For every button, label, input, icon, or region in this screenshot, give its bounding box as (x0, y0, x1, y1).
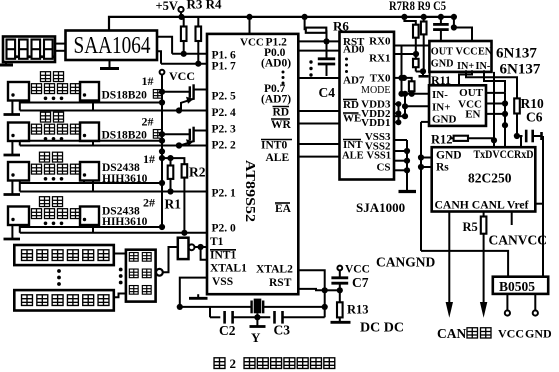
svg-text:P2. 5: P2. 5 (212, 91, 237, 103)
capacitor C7 (331, 270, 348, 290)
wire IN+ chain to R10 (466, 70, 517, 98)
svg-text:XTAL2: XTAL2 (256, 264, 293, 276)
wire detector1 to gate (114, 253, 126, 255)
svg-text:WR: WR (271, 119, 292, 131)
label 2# b (143, 196, 155, 210)
IC SAA1064 display driver (66, 31, 158, 61)
wire RX0 drop (398, 46, 404, 97)
label wen-du 1 (40, 72, 63, 82)
wire VDD net (394, 101, 401, 125)
resistor R12 (450, 136, 495, 141)
label C2 (219, 323, 236, 338)
svg-text:CANVCC: CANVCC (489, 233, 548, 248)
wire IN- lower opto (402, 91, 430, 97)
label R10 (521, 96, 544, 111)
svg-text:2#: 2# (143, 196, 155, 210)
wire XTAL2 net (298, 270, 324, 290)
wire AD7 net (298, 77, 339, 79)
ground (crystal) (250, 317, 266, 326)
svg-text:C7: C7 (352, 275, 369, 290)
svg-text:GND: GND (525, 327, 552, 341)
capacitor C6 (514, 130, 542, 143)
svg-text:P1. 7: P1. 7 (212, 61, 237, 73)
wire sensor3 w1 (20, 182, 162, 184)
resistor R9 (413, 54, 419, 72)
svg-text:EN: EN (465, 109, 480, 121)
crystal line right (263, 304, 328, 310)
label shi-du 2 (39, 197, 62, 207)
resistor R1 (162, 155, 174, 195)
label chuanganqizu 4 (31, 209, 80, 219)
svg-text:INT0: INT0 (261, 140, 287, 152)
wire VCC lower net (486, 100, 508, 106)
wire sensor4 w2 P2.0 (20, 230, 207, 236)
transistor Q1 (162, 84, 207, 113)
wire P1.6 net (172, 51, 207, 57)
svg-text:WE: WE (343, 113, 361, 125)
wire CANGND net (421, 251, 508, 277)
sensor group 3 humidity boxes (4, 162, 100, 195)
resistor R8 (421, 14, 427, 72)
label chuanganqizu 3 (31, 164, 80, 174)
svg-text:R3 R4: R3 R4 (187, 0, 223, 12)
wire SAA1064 SDA stub (157, 37, 172, 54)
dots sensors 1 (44, 97, 64, 101)
label R12 (431, 133, 453, 147)
svg-text:ALE: ALE (342, 151, 364, 162)
svg-text:INT: INT (343, 139, 363, 151)
wire RX0 net (394, 45, 429, 47)
svg-text:C4: C4 (319, 85, 336, 100)
wire IN- chain to VCC col (484, 70, 505, 93)
resistor R2 (171, 158, 188, 233)
svg-text:RD: RD (343, 99, 359, 111)
wire sensor4 w1 (20, 226, 162, 228)
svg-text:B0505: B0505 (499, 279, 535, 294)
svg-text:VCC: VCC (240, 37, 264, 49)
svg-text:R7R8 R9 C5: R7R8 R9 C5 (389, 0, 446, 13)
wire sensor2 w2 P2.2 (20, 142, 207, 148)
optocoupler U5 6N137 lower (429, 85, 486, 126)
wire OUT lower net (486, 92, 505, 94)
wire sensor3 w2 P2.1 (20, 191, 207, 193)
wire RX1 net (394, 51, 419, 57)
svg-text:VSS: VSS (212, 276, 233, 288)
ground (R13) (331, 321, 351, 324)
wire cap line (210, 307, 220, 317)
wire CANVCC riser (535, 136, 543, 278)
label CAN bus (437, 326, 491, 341)
dots sensors 3 (44, 177, 64, 181)
label wen-du 2 (40, 112, 63, 122)
label 2# a (142, 115, 154, 129)
wire WR/WE net (298, 123, 339, 125)
junction R8/R9/ground (416, 68, 426, 74)
label DS2438/HIH3610 group2 (102, 206, 148, 229)
svg-text:TxDVCCRxD: TxDVCCRxD (474, 149, 534, 161)
ground (display) (0, 62, 13, 65)
dots between detectors (57, 269, 61, 286)
wire opto box link (429, 72, 431, 85)
label R2 (189, 165, 206, 180)
svg-text:VCC: VCC (498, 327, 524, 341)
ground (VSS) (189, 294, 208, 298)
sensor group 1 temperature boxes (4, 82, 100, 115)
svg-text:RD: RD (273, 107, 290, 119)
bus dots AD1-AD6 (309, 60, 312, 76)
resistor R5 (480, 212, 487, 318)
IC 82C250 CAN transceiver (432, 147, 536, 211)
wire T1 net (195, 244, 208, 250)
wire EN lower net (486, 111, 508, 117)
resistor R6 (302, 14, 327, 42)
wire GND pin (418, 154, 432, 160)
svg-text:C3: C3 (274, 323, 291, 338)
svg-text:MODE: MODE (361, 85, 390, 96)
wire RD net (298, 110, 339, 112)
label C4 (319, 85, 336, 100)
svg-text:P2. 4: P2. 4 (212, 107, 237, 119)
capacitor C3 (275, 307, 325, 324)
wire VSS/CS net (394, 140, 410, 190)
svg-text:VCC: VCC (169, 69, 195, 83)
caption figure 2 (214, 356, 335, 371)
wire RST net (298, 289, 324, 290)
svg-text:R5: R5 (463, 220, 478, 234)
wire NAND out to inverter (163, 247, 178, 272)
wire display to SAA1064 (55, 44, 66, 51)
svg-text:1#: 1# (143, 152, 155, 166)
junction +5V rail (178, 14, 184, 20)
label R7R8 R9 C5 (389, 0, 446, 13)
wire detector2 to gate (114, 294, 126, 298)
svg-text:EA: EA (275, 203, 292, 215)
svg-text:6N137: 6N137 (500, 62, 541, 78)
resistor R13 (337, 290, 343, 321)
svg-text:R2: R2 (189, 165, 206, 180)
label 6N137 x2 (496, 46, 541, 78)
label DC DC (360, 321, 404, 336)
ground (SJA1000 VSS) (399, 190, 417, 193)
svg-text:VCC: VCC (456, 47, 478, 58)
resistor R4 (196, 17, 202, 64)
svg-text:CAN: CAN (437, 326, 466, 341)
svg-text:+5V: +5V (156, 0, 178, 13)
crystal line left (177, 304, 252, 310)
label DS18B20 group2 (102, 130, 163, 142)
svg-text:R12: R12 (431, 133, 453, 147)
label CANVCC (489, 233, 548, 248)
svg-text:C2: C2 (219, 323, 236, 338)
+5V supply terminal (156, 0, 184, 17)
svg-text:IN+: IN+ (432, 102, 451, 114)
svg-text:Rs: Rs (436, 162, 449, 174)
wire isolated GND drop (420, 122, 422, 251)
dots sensors 4 (44, 222, 64, 226)
svg-text:P2. 3: P2. 3 (212, 124, 237, 136)
resistor R10 (514, 98, 520, 136)
label C7 (352, 275, 369, 290)
wire AD0 net (298, 50, 339, 52)
svg-text:SAA1064: SAA1064 (74, 33, 151, 59)
svg-text:C6: C6 (526, 110, 543, 125)
wire P1.2/RST net (298, 38, 339, 44)
wire P1.7 net (161, 61, 207, 67)
wire cap line mid (251, 313, 270, 320)
svg-text:SJA1000: SJA1000 (356, 200, 405, 215)
wire VCC to AT89S52 (246, 14, 252, 34)
svg-text:2: 2 (230, 356, 237, 371)
wire GND lower opto (421, 121, 429, 123)
svg-text:AT89S52: AT89S52 (243, 160, 258, 222)
box grain insect detector 1 (14, 245, 114, 265)
svg-text:CANGND: CANGND (376, 255, 435, 270)
svg-text:P2. 2: P2. 2 (212, 140, 237, 152)
wire sensor2 w1 (20, 140, 162, 142)
label VCC GND (498, 327, 552, 341)
label 1# b (143, 152, 155, 166)
svg-text:6N137: 6N137 (496, 46, 537, 62)
svg-text:RX0: RX0 (369, 36, 391, 48)
svg-text:VCC: VCC (345, 264, 370, 276)
resistor R3 (181, 17, 187, 54)
label DS18B20 group1 (102, 90, 163, 102)
svg-text:VSS1: VSS1 (366, 151, 391, 162)
svg-text:GND: GND (431, 59, 454, 70)
wire sensor VCC bus (159, 75, 165, 231)
wire INT1 net (201, 247, 207, 260)
wire VCC column (502, 93, 508, 147)
wire sensor1 w1 (20, 102, 162, 104)
wire ALE net (298, 156, 339, 158)
IC B0505 DC-DC converter (493, 277, 548, 294)
7-segment LED display (3, 37, 56, 63)
svg-text:CANH CANL Vref: CANH CANL Vref (435, 198, 530, 212)
svg-text:GND: GND (436, 150, 462, 162)
wire Rs pin (418, 164, 432, 170)
svg-text:82C250: 82C250 (468, 171, 512, 186)
terminal GND out (533, 294, 538, 316)
label DS2438/HIH3610 group1 (102, 162, 148, 185)
wire Vref stub (511, 212, 513, 226)
wire IN+ lower net (405, 105, 429, 107)
label R1 (165, 197, 182, 212)
dots sensors 2 (44, 137, 64, 141)
IC SJA1000 CAN controller (340, 32, 395, 180)
svg-text:Y: Y (251, 330, 261, 345)
svg-text:R13: R13 (347, 303, 369, 317)
wire TX0 net (394, 75, 407, 81)
label R11 (431, 73, 451, 87)
svg-text:VDD1: VDD1 (361, 117, 390, 129)
label CANGND (376, 255, 435, 270)
op-amp main MCU AT89S52 (207, 34, 298, 294)
label chuanganqizu 2 (31, 124, 80, 134)
bubble inverter output (189, 244, 195, 250)
gate 8-input NAND (126, 250, 156, 302)
ground (R8 R9) (419, 72, 429, 77)
wire XTAL1 net (180, 278, 207, 307)
svg-text:RST: RST (269, 277, 292, 289)
junction RST/XTAL (322, 287, 343, 307)
capacitor C4 (318, 41, 335, 76)
svg-text:P2. 1: P2. 1 (212, 188, 237, 200)
label R6 (333, 19, 349, 34)
transistor Q2 (162, 127, 207, 149)
gate inverter (178, 238, 189, 259)
capacitor C5 (433, 14, 449, 41)
svg-text:1#: 1# (142, 74, 154, 88)
svg-text:DS18B20: DS18B20 (102, 90, 148, 102)
svg-text:OUT: OUT (459, 87, 484, 99)
svg-text:INT1: INT1 (210, 250, 236, 262)
svg-text:R1: R1 (165, 197, 182, 212)
optocoupler U4 6N137 upper (429, 41, 492, 72)
wire CANH (446, 212, 453, 318)
svg-text:XTAL1: XTAL1 (210, 263, 247, 275)
wire IN+ upper to lower box (459, 70, 472, 85)
svg-text:DC DC: DC DC (360, 321, 404, 336)
bubble NAND output (156, 269, 163, 276)
terminal VCC sensors (160, 69, 195, 83)
wire TxD column (491, 72, 497, 147)
svg-text:RX1: RX1 (369, 52, 390, 64)
label SJA1000 (356, 200, 405, 215)
resistor R7 (401, 14, 418, 54)
svg-text:(AD7): (AD7) (261, 94, 291, 106)
label R5 (463, 220, 478, 234)
sensor group 4 humidity boxes (4, 207, 100, 240)
wire INT net (298, 143, 339, 145)
svg-text:CS: CS (376, 162, 390, 174)
svg-text:P2. 0: P2. 0 (212, 223, 237, 235)
svg-text:2#: 2# (142, 115, 154, 129)
crystal Y (252, 300, 264, 314)
wire VDD2 jog (394, 91, 408, 120)
label chuanganqizu 1 (31, 84, 80, 94)
svg-text:T1: T1 (210, 236, 224, 248)
svg-text:(AD0): (AD0) (261, 58, 291, 70)
wire SAA1064 SCL stub (157, 51, 161, 63)
label C6 (526, 110, 543, 125)
ground (SAA1064) (100, 60, 119, 69)
label 1# a (142, 74, 154, 88)
svg-text:IN-: IN- (432, 89, 448, 101)
wire rail end to opto VCC (451, 14, 472, 41)
svg-text:EN: EN (478, 47, 493, 58)
dots gate inputs (119, 268, 123, 285)
terminal VCC reset (337, 264, 370, 276)
wire sensor1 w2 P2.4 (20, 110, 207, 112)
terminal VCC out (505, 294, 510, 316)
svg-text:TX0: TX0 (370, 72, 391, 84)
box grain insect detector 2 (14, 290, 114, 310)
label R13 (347, 303, 369, 317)
+5V rail wire (109, 17, 454, 31)
svg-text:OUT: OUT (431, 47, 453, 58)
label Y (251, 330, 261, 345)
label C3 (274, 323, 291, 338)
label R3 R4 (187, 0, 223, 12)
wire RxD stub (520, 136, 522, 147)
sensor group 2 temperature boxes (4, 123, 100, 156)
svg-text:AD0: AD0 (343, 44, 365, 56)
resistor R11 (404, 78, 415, 94)
capacitor C2 (225, 311, 251, 324)
label shi-du 1 (39, 152, 62, 162)
svg-text:ALE: ALE (266, 152, 290, 164)
svg-text:GND: GND (432, 114, 457, 126)
